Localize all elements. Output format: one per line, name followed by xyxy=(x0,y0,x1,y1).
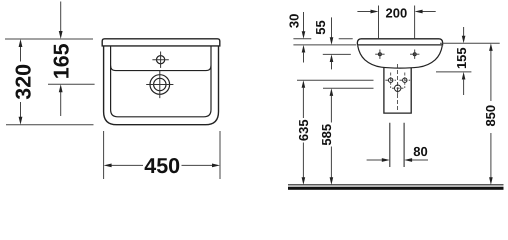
tap hole crosshair (plan) xyxy=(157,56,165,64)
svg-text:200: 200 xyxy=(386,6,408,21)
fixing hole right xyxy=(403,78,407,82)
waste pipe lines (80) xyxy=(390,123,404,167)
dimension 450 arrows xyxy=(104,164,112,168)
dimension 450 extension lines xyxy=(104,131,220,179)
tap hole left (front) xyxy=(378,53,381,56)
floor hatch bar xyxy=(288,187,504,190)
dimension 585 line + arrows xyxy=(330,88,334,96)
drain hole (front) xyxy=(395,85,401,91)
extension line 155 top / 850 top xyxy=(440,42,500,44)
extension line tap holes (55) xyxy=(323,53,351,55)
extension lines rim top / rim bottom (left of basin) xyxy=(293,38,352,40)
svg-text:850: 850 xyxy=(483,105,498,127)
dimension 165 arrows xyxy=(59,31,63,39)
svg-text:155: 155 xyxy=(454,47,469,69)
svg-text:80: 80 xyxy=(413,144,427,159)
svg-text:55: 55 xyxy=(313,20,328,34)
extension line 155 bottom xyxy=(436,71,471,73)
svg-text:585: 585 xyxy=(319,124,334,146)
extension line: drain centre (165) xyxy=(48,83,95,85)
floor line xyxy=(288,184,504,186)
fixing hole left xyxy=(389,78,393,82)
extension line drain (585) xyxy=(323,87,374,89)
dimension 450 line xyxy=(111,164,213,166)
washbasin outer body (plan) xyxy=(104,46,219,125)
tap deck line (plan) xyxy=(111,66,211,71)
dimension 200 line + arrows xyxy=(357,11,371,13)
pedestal centre line (dashed) xyxy=(397,64,399,111)
extension line: basin front edge (left) xyxy=(6,124,94,126)
dimension 155 line + arrows xyxy=(463,27,465,36)
svg-text:320: 320 xyxy=(12,64,36,100)
extension line: basin back edge (left) xyxy=(5,38,93,40)
dimension 80 arrows xyxy=(367,159,383,161)
dimension 165 line xyxy=(60,2,62,117)
washbasin inner rim (plan) xyxy=(111,46,211,117)
washbasin back ledge (plan) xyxy=(102,39,220,46)
basin rim (front) xyxy=(357,39,442,45)
dimension 320 arrows xyxy=(19,39,23,47)
svg-text:30: 30 xyxy=(286,14,301,28)
dimension 200 extension lines xyxy=(379,6,415,39)
dimension 850 line + arrows xyxy=(489,43,493,51)
dimension 55 line + arrows xyxy=(331,17,333,37)
extension line fixing holes (635) xyxy=(297,79,374,81)
dimension 635 line + arrows xyxy=(302,80,306,88)
svg-text:450: 450 xyxy=(144,154,180,178)
dimension 30 line + arrows xyxy=(303,12,305,32)
drain crosshair (plan) xyxy=(150,75,170,95)
tap hole right (front) xyxy=(413,53,416,56)
svg-text:165: 165 xyxy=(50,43,74,79)
dimension 320 line xyxy=(20,45,22,119)
basin body (front) xyxy=(358,46,443,69)
pedestal / siphon cover xyxy=(384,68,411,114)
svg-text:635: 635 xyxy=(296,119,311,141)
